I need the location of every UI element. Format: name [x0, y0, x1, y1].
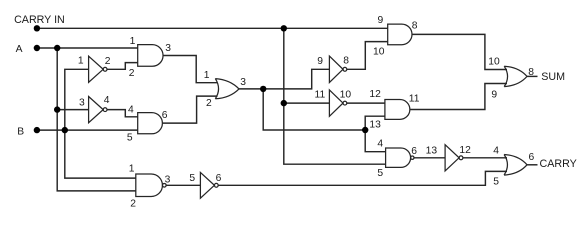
svg-text:12: 12 [369, 89, 381, 100]
svg-text:10: 10 [340, 90, 352, 101]
node pin13/pin4 junction [362, 127, 368, 133]
svg-text:4: 4 [104, 95, 110, 106]
svg-text:8: 8 [412, 20, 418, 31]
OR gate U3 pins 1,2 out 3 [215, 79, 239, 99]
wire CARRY output 6 [527, 164, 538, 166]
NAND gate U14 pins 1,2 out 3 [136, 174, 163, 197]
wire inverter pin 8 to NAND pin 10 [347, 42, 388, 70]
svg-text:13: 13 [426, 146, 438, 157]
wire OR output 3 to inverter pin 9 [239, 69, 329, 89]
svg-text:3: 3 [240, 77, 246, 88]
wire NAND output 11 to OR pin 9 [410, 84, 507, 110]
node A-inverter junction [54, 106, 60, 112]
svg-text:3: 3 [79, 98, 85, 109]
AND gate U2 pins 4,5 out 6 [138, 113, 163, 134]
wire CARRY IN net [37, 27, 388, 29]
wire inverter pin 10 to NAND pin 12 [347, 102, 385, 104]
wire inverter pin 12 to OR pin 4 [463, 157, 507, 159]
wire SUM output 8 [527, 75, 538, 77]
svg-text:6: 6 [216, 173, 222, 184]
svg-text:A: A [16, 44, 23, 55]
svg-text:9: 9 [491, 90, 497, 101]
wire A vertical branch to bottom NAND pin 2 [57, 48, 136, 191]
svg-text:4: 4 [493, 145, 499, 156]
inverter U15 pins 5,6 [200, 172, 214, 198]
svg-text:2: 2 [129, 68, 135, 79]
svg-text:6: 6 [529, 152, 535, 163]
node carry-in top junction [281, 25, 287, 31]
inverter U7 pins 11,10 [329, 90, 343, 116]
wire bottom NAND output 3 to inverter pin 5 [166, 184, 200, 186]
svg-text:1: 1 [78, 55, 84, 66]
svg-text:B: B [17, 126, 24, 137]
svg-text:5: 5 [377, 168, 383, 179]
AND gate U9 pins 12,13 out 11 [385, 100, 410, 120]
NAND gate U10 pins 4,5 out 6 [386, 148, 411, 167]
AND gate U8 pins 9,10 out 8 [388, 24, 412, 45]
wire bottom NAND output via inverter 6 to OR pin 5 [218, 171, 507, 185]
node CARRY IN terminal [34, 25, 40, 31]
svg-text:4: 4 [128, 104, 134, 115]
node carry-in mid junction [281, 100, 287, 106]
wire node to NAND pin 13 [365, 116, 385, 130]
node B terminal [34, 127, 40, 133]
svg-text:5: 5 [127, 132, 133, 143]
svg-text:9: 9 [378, 15, 384, 26]
inverter U4 pins 1,2 [89, 56, 104, 82]
svg-text:12: 12 [459, 145, 471, 156]
svg-text:9: 9 [317, 56, 323, 67]
OR gate U13 pins 4,5 out 6 CARRY [504, 155, 527, 176]
svg-text:1: 1 [130, 36, 136, 47]
svg-text:1: 1 [129, 164, 135, 175]
wire inverter pin 2 to AND pin 2 [107, 63, 138, 70]
wire OR output down branch to node [263, 89, 365, 130]
wire NAND output 8 to OR pin 10 [412, 34, 507, 69]
svg-text:SUM: SUM [541, 71, 565, 83]
svg-text:8: 8 [528, 67, 534, 78]
svg-text:CARRY IN: CARRY IN [14, 14, 65, 26]
wire A branch to inverter pin 3 [57, 109, 88, 111]
svg-text:5: 5 [493, 176, 499, 187]
wire inverter pin 4 to AND pin 4 [107, 110, 138, 117]
inverter U11 pins 13,12 [445, 145, 459, 171]
svg-text:10: 10 [373, 47, 385, 58]
wire A net [37, 47, 138, 49]
wire CARRY IN vertical branch to NAND pin 5 [284, 28, 386, 164]
svg-text:1: 1 [204, 70, 210, 81]
node B junction [62, 127, 68, 133]
svg-text:2: 2 [105, 56, 111, 67]
svg-text:5: 5 [189, 173, 195, 184]
svg-text:11: 11 [315, 90, 326, 101]
svg-text:2: 2 [206, 98, 212, 109]
node A junction [54, 45, 60, 51]
OR gate U12 pins 10,9 out 8 SUM [504, 66, 527, 86]
svg-text:2: 2 [130, 199, 136, 210]
inverter U6 pins 9,8 [329, 56, 343, 82]
node OR output junction [260, 86, 266, 92]
wire AND output 6 to OR pin 2 [162, 96, 218, 123]
wire AND output 3 to OR pin 1 [163, 56, 217, 83]
inverter U5 pins 3,4 [89, 97, 104, 123]
svg-text:6: 6 [162, 110, 168, 121]
wire node to NAND pin 4 [365, 130, 385, 152]
svg-text:3: 3 [165, 43, 171, 54]
svg-text:11: 11 [409, 94, 420, 105]
wire B net [37, 129, 138, 131]
node A terminal [34, 45, 40, 51]
svg-text:10: 10 [488, 57, 500, 68]
svg-text:8: 8 [343, 56, 349, 67]
svg-text:4: 4 [377, 139, 383, 150]
wire NAND output 6 to inverter pin 13 [414, 157, 445, 159]
svg-text:13: 13 [369, 120, 381, 131]
wire B vertical branch to inverter pin 1 and bottom NAND pin 1 [65, 69, 136, 178]
svg-text:6: 6 [411, 146, 417, 157]
AND gate U1 pins 1,2 out 3 [138, 45, 163, 67]
svg-text:3: 3 [165, 175, 171, 186]
svg-text:CARRY: CARRY [540, 158, 577, 170]
wire carry-in node to inverter pin 11 [284, 102, 330, 104]
